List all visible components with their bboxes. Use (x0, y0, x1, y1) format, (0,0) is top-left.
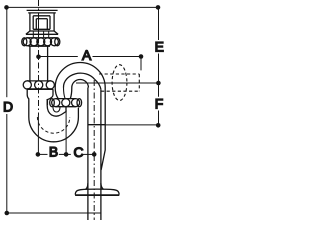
dot B left (36, 152, 41, 157)
centerline inlet tailpiece (38, 0, 40, 115)
dimension D line (7, 7, 159, 213)
dot D bottom (5, 211, 10, 216)
outlet tube right wall (100, 89, 102, 220)
dot A left (36, 55, 41, 60)
dot EF mid (156, 81, 161, 86)
top nut knurl band (26, 31, 30, 34)
outlet hub end face (88, 124, 105, 126)
lower slip nut chain (tailpiece to trap) (27, 80, 51, 82)
inlet tailpiece tube (29, 46, 31, 81)
J-bend inner web (47, 99, 66, 116)
floor flange wall flares (86, 183, 88, 189)
return bend left leg outer (55, 88, 58, 99)
outlet tube left wall (87, 88, 89, 221)
side outlet hidden bottom wall (101, 90, 139, 92)
outlet slip nut chain (J-bend to return bend) (56, 98, 76, 100)
side outlet hidden top wall (99, 73, 139, 75)
dot D top (4, 5, 9, 10)
floor flange dome (75, 189, 119, 194)
svg-text:B: B (49, 144, 58, 160)
svg-text:F: F (155, 96, 164, 112)
dimension B C line (38, 110, 94, 154)
dot C right (92, 152, 97, 157)
svg-text:C: C (74, 144, 84, 160)
trap inlet hub (27, 89, 29, 117)
top slip nut cap (27, 9, 58, 11)
svg-text:E: E (155, 39, 164, 55)
svg-text:A: A (82, 47, 92, 63)
dimension A line (39, 57, 142, 71)
floor flange brim (75, 194, 119, 196)
top nut body (29, 13, 31, 31)
outlet hub right wall (101, 88, 105, 171)
side outlet hidden end (138, 74, 140, 91)
top nut bead chain (22, 38, 27, 46)
dot E top (156, 5, 161, 10)
dimension E F vertical (158, 7, 160, 125)
return bend inner web arc (72, 80, 89, 88)
dimension line hub end to F (105, 124, 158, 126)
return bend mid hub arc (63, 73, 94, 87)
escutcheon flange hidden ellipse (112, 65, 127, 101)
svg-text:D: D (3, 99, 13, 115)
dot BC mid (64, 152, 69, 157)
J-bend hidden water line (37, 117, 69, 133)
J-bend outer U (29, 108, 79, 142)
return bend outer arc (55, 63, 105, 88)
side outlet centerline (76, 82, 159, 84)
dot F bottom (156, 123, 161, 128)
dot A right (139, 54, 144, 59)
outlet centerline (93, 80, 95, 220)
